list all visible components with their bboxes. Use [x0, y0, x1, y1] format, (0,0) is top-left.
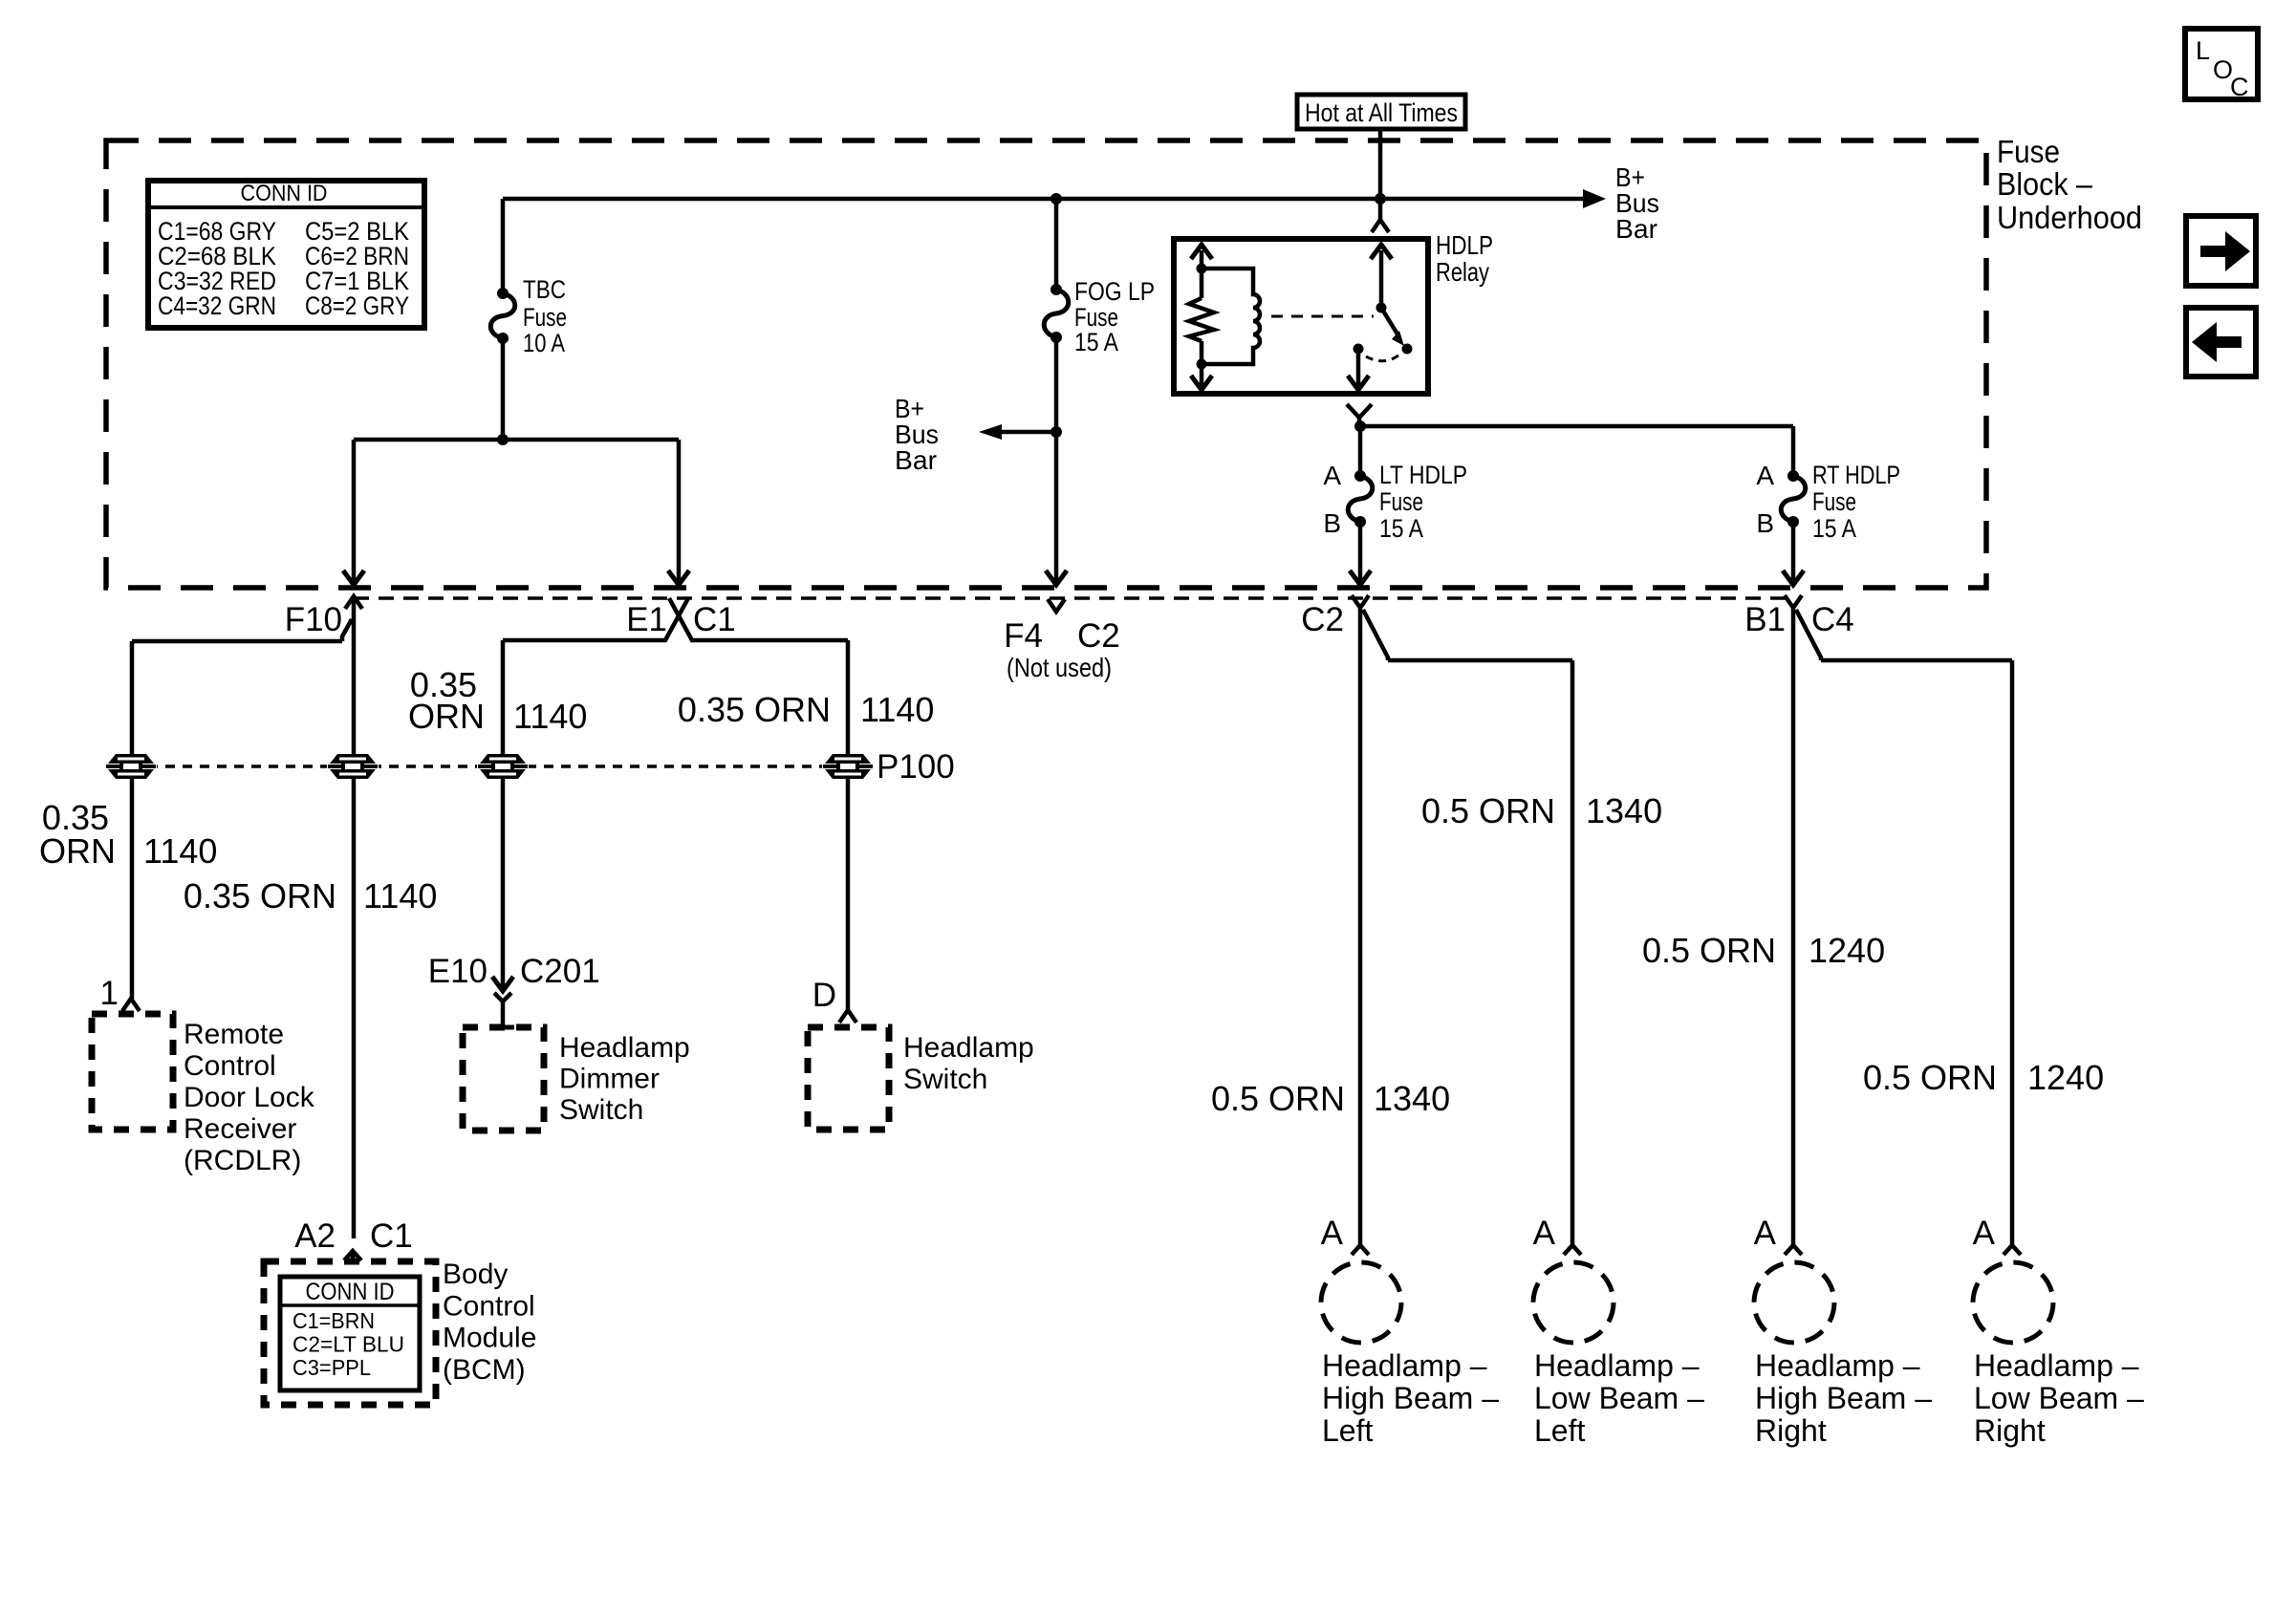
svg-text:Remote: Remote	[184, 1019, 284, 1050]
svg-text:Headlamp: Headlamp	[903, 1032, 1034, 1064]
svg-text:15 A: 15 A	[1812, 514, 1856, 543]
svg-text:LT HDLP: LT HDLP	[1379, 461, 1467, 489]
svg-text:Headlamp –: Headlamp –	[1755, 1348, 1920, 1383]
svg-text:Left: Left	[1322, 1413, 1373, 1448]
svg-text:ORN: ORN	[408, 697, 485, 736]
svg-text:High Beam –: High Beam –	[1322, 1381, 1499, 1415]
svg-text:(BCM): (BCM)	[443, 1354, 526, 1386]
svg-text:Control: Control	[184, 1050, 276, 1082]
svg-text:C: C	[2230, 73, 2249, 101]
svg-text:Headlamp –: Headlamp –	[1974, 1348, 2139, 1383]
svg-text:F10: F10	[285, 601, 342, 638]
svg-text:E1: E1	[626, 601, 667, 638]
svg-text:A: A	[1754, 1215, 1777, 1252]
svg-text:Receiver: Receiver	[184, 1113, 296, 1145]
svg-text:Hot at All Times: Hot at All Times	[1305, 98, 1458, 127]
svg-text:(RCDLR): (RCDLR)	[184, 1145, 301, 1176]
svg-text:ORN: ORN	[39, 831, 116, 871]
svg-text:Headlamp –: Headlamp –	[1534, 1348, 1700, 1383]
svg-text:Dimmer: Dimmer	[559, 1064, 660, 1095]
svg-text:Bar: Bar	[1615, 214, 1657, 244]
svg-text:0.35 ORN: 0.35 ORN	[678, 690, 831, 729]
svg-text:High Beam –: High Beam –	[1755, 1381, 1932, 1415]
svg-text:CONN ID: CONN ID	[241, 181, 328, 206]
svg-text:0.35 ORN: 0.35 ORN	[184, 876, 336, 915]
svg-text:10 A: 10 A	[523, 329, 565, 357]
svg-text:(Not used): (Not used)	[1007, 653, 1112, 682]
svg-text:Fuse: Fuse	[1997, 134, 2060, 169]
svg-text:B: B	[1756, 508, 1774, 538]
svg-text:C8=2 GRY: C8=2 GRY	[305, 291, 409, 320]
svg-text:C2=LT BLU: C2=LT BLU	[292, 1332, 404, 1357]
svg-text:Low Beam –: Low Beam –	[1974, 1381, 2144, 1415]
svg-text:1240: 1240	[2027, 1058, 2104, 1097]
svg-text:Right: Right	[1974, 1413, 2046, 1448]
svg-text:Block –: Block –	[1997, 166, 2093, 202]
svg-text:Headlamp –: Headlamp –	[1322, 1348, 1487, 1383]
svg-text:Underhood: Underhood	[1997, 200, 2142, 235]
svg-text:C1=BRN: C1=BRN	[292, 1308, 375, 1333]
svg-text:Low Beam –: Low Beam –	[1534, 1381, 1704, 1415]
svg-text:TBC: TBC	[523, 275, 566, 304]
svg-text:F4: F4	[1004, 617, 1043, 655]
svg-text:Right: Right	[1755, 1413, 1827, 1448]
svg-text:L: L	[2196, 36, 2210, 65]
svg-text:A: A	[1321, 1215, 1344, 1252]
svg-text:A: A	[1323, 461, 1341, 490]
svg-text:D: D	[812, 977, 836, 1014]
svg-text:B: B	[1323, 508, 1341, 538]
svg-text:0.5 ORN: 0.5 ORN	[1863, 1058, 1997, 1097]
svg-text:C4: C4	[1811, 601, 1854, 638]
svg-text:0.5 ORN: 0.5 ORN	[1642, 931, 1776, 970]
svg-text:E10: E10	[428, 953, 487, 990]
svg-text:A: A	[1973, 1215, 1996, 1252]
svg-text:1340: 1340	[1586, 791, 1662, 830]
svg-text:Bar: Bar	[895, 445, 937, 475]
svg-text:1140: 1140	[363, 876, 437, 915]
svg-text:Fuse: Fuse	[1379, 487, 1423, 516]
svg-text:HDLP: HDLP	[1436, 230, 1493, 260]
svg-text:Switch: Switch	[559, 1094, 643, 1126]
svg-text:C2: C2	[1301, 601, 1344, 638]
svg-text:1340: 1340	[1374, 1079, 1450, 1118]
svg-text:15 A: 15 A	[1074, 328, 1118, 356]
svg-text:CONN ID: CONN ID	[306, 1279, 395, 1305]
svg-text:C201: C201	[520, 953, 600, 990]
svg-text:Fuse: Fuse	[1812, 487, 1856, 516]
svg-text:15 A: 15 A	[1379, 514, 1423, 543]
svg-text:Module: Module	[443, 1323, 536, 1354]
svg-text:Door Lock: Door Lock	[184, 1082, 315, 1113]
svg-text:0.5 ORN: 0.5 ORN	[1421, 791, 1555, 830]
svg-text:Headlamp: Headlamp	[559, 1032, 690, 1064]
svg-text:C4=32 GRN: C4=32 GRN	[158, 291, 276, 320]
svg-text:1140: 1140	[513, 697, 587, 736]
svg-text:P100: P100	[877, 748, 955, 786]
svg-text:Body: Body	[443, 1259, 508, 1290]
svg-text:A2: A2	[294, 1217, 336, 1255]
svg-text:C3=PPL: C3=PPL	[292, 1355, 371, 1380]
svg-text:Switch: Switch	[903, 1064, 987, 1095]
svg-text:B1: B1	[1744, 601, 1786, 638]
svg-text:Control: Control	[443, 1290, 535, 1322]
svg-text:RT HDLP: RT HDLP	[1812, 461, 1900, 489]
svg-text:A: A	[1533, 1215, 1556, 1252]
svg-text:0.5 ORN: 0.5 ORN	[1211, 1079, 1345, 1118]
svg-text:1140: 1140	[143, 831, 217, 871]
svg-text:Fuse: Fuse	[523, 303, 567, 332]
svg-text:1: 1	[100, 975, 119, 1012]
svg-text:Relay: Relay	[1436, 257, 1489, 287]
svg-text:A: A	[1756, 461, 1774, 490]
svg-text:FOG LP: FOG LP	[1074, 277, 1155, 306]
svg-text:C2: C2	[1077, 617, 1120, 655]
svg-text:C1: C1	[693, 601, 736, 638]
svg-text:1140: 1140	[860, 690, 934, 729]
svg-text:Left: Left	[1534, 1413, 1585, 1448]
svg-text:C1: C1	[370, 1217, 413, 1255]
svg-text:1240: 1240	[1809, 931, 1885, 970]
